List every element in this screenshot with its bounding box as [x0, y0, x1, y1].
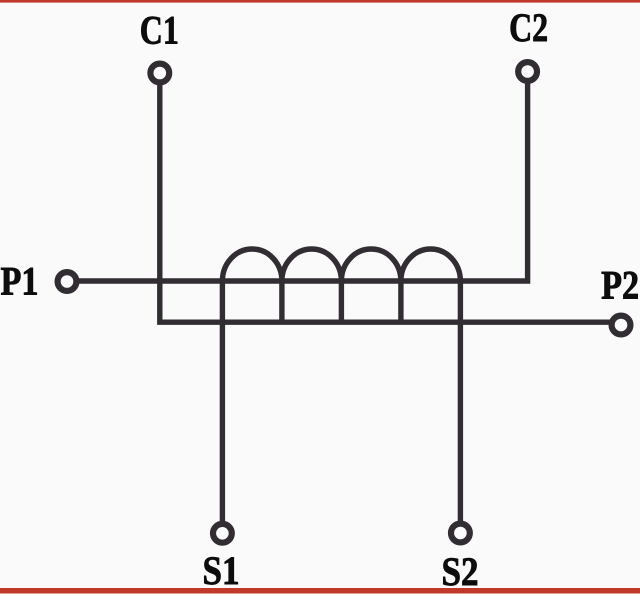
wire: S2 lead	[458, 281, 463, 533]
svg-text:P2: P2	[601, 262, 639, 307]
terminal S2	[451, 524, 470, 543]
svg-text:C2: C2	[509, 5, 548, 50]
bottom red border	[0, 588, 640, 594]
top red border	[0, 0, 640, 3]
wire: S1 lead	[220, 281, 225, 533]
svg-text:S2: S2	[442, 549, 479, 594]
junction drop 2	[339, 281, 344, 322]
svg-text:P1: P1	[1, 259, 39, 304]
svg-text:S1: S1	[203, 548, 240, 593]
inductor winding: 4 arcs	[222, 249, 460, 281]
terminal P2	[612, 316, 631, 335]
wire: C1 drop to lower horizontal rail to P2	[160, 73, 621, 322]
junction drop 3	[398, 281, 403, 322]
junction drop 1	[279, 281, 284, 322]
terminal C2	[518, 62, 537, 81]
svg-text:C1: C1	[140, 8, 179, 53]
terminal C1	[150, 64, 169, 83]
terminal P1	[58, 272, 77, 291]
wire: P1 upper horizontal rail with C2 riser	[67, 72, 528, 282]
terminal S1	[213, 524, 232, 543]
